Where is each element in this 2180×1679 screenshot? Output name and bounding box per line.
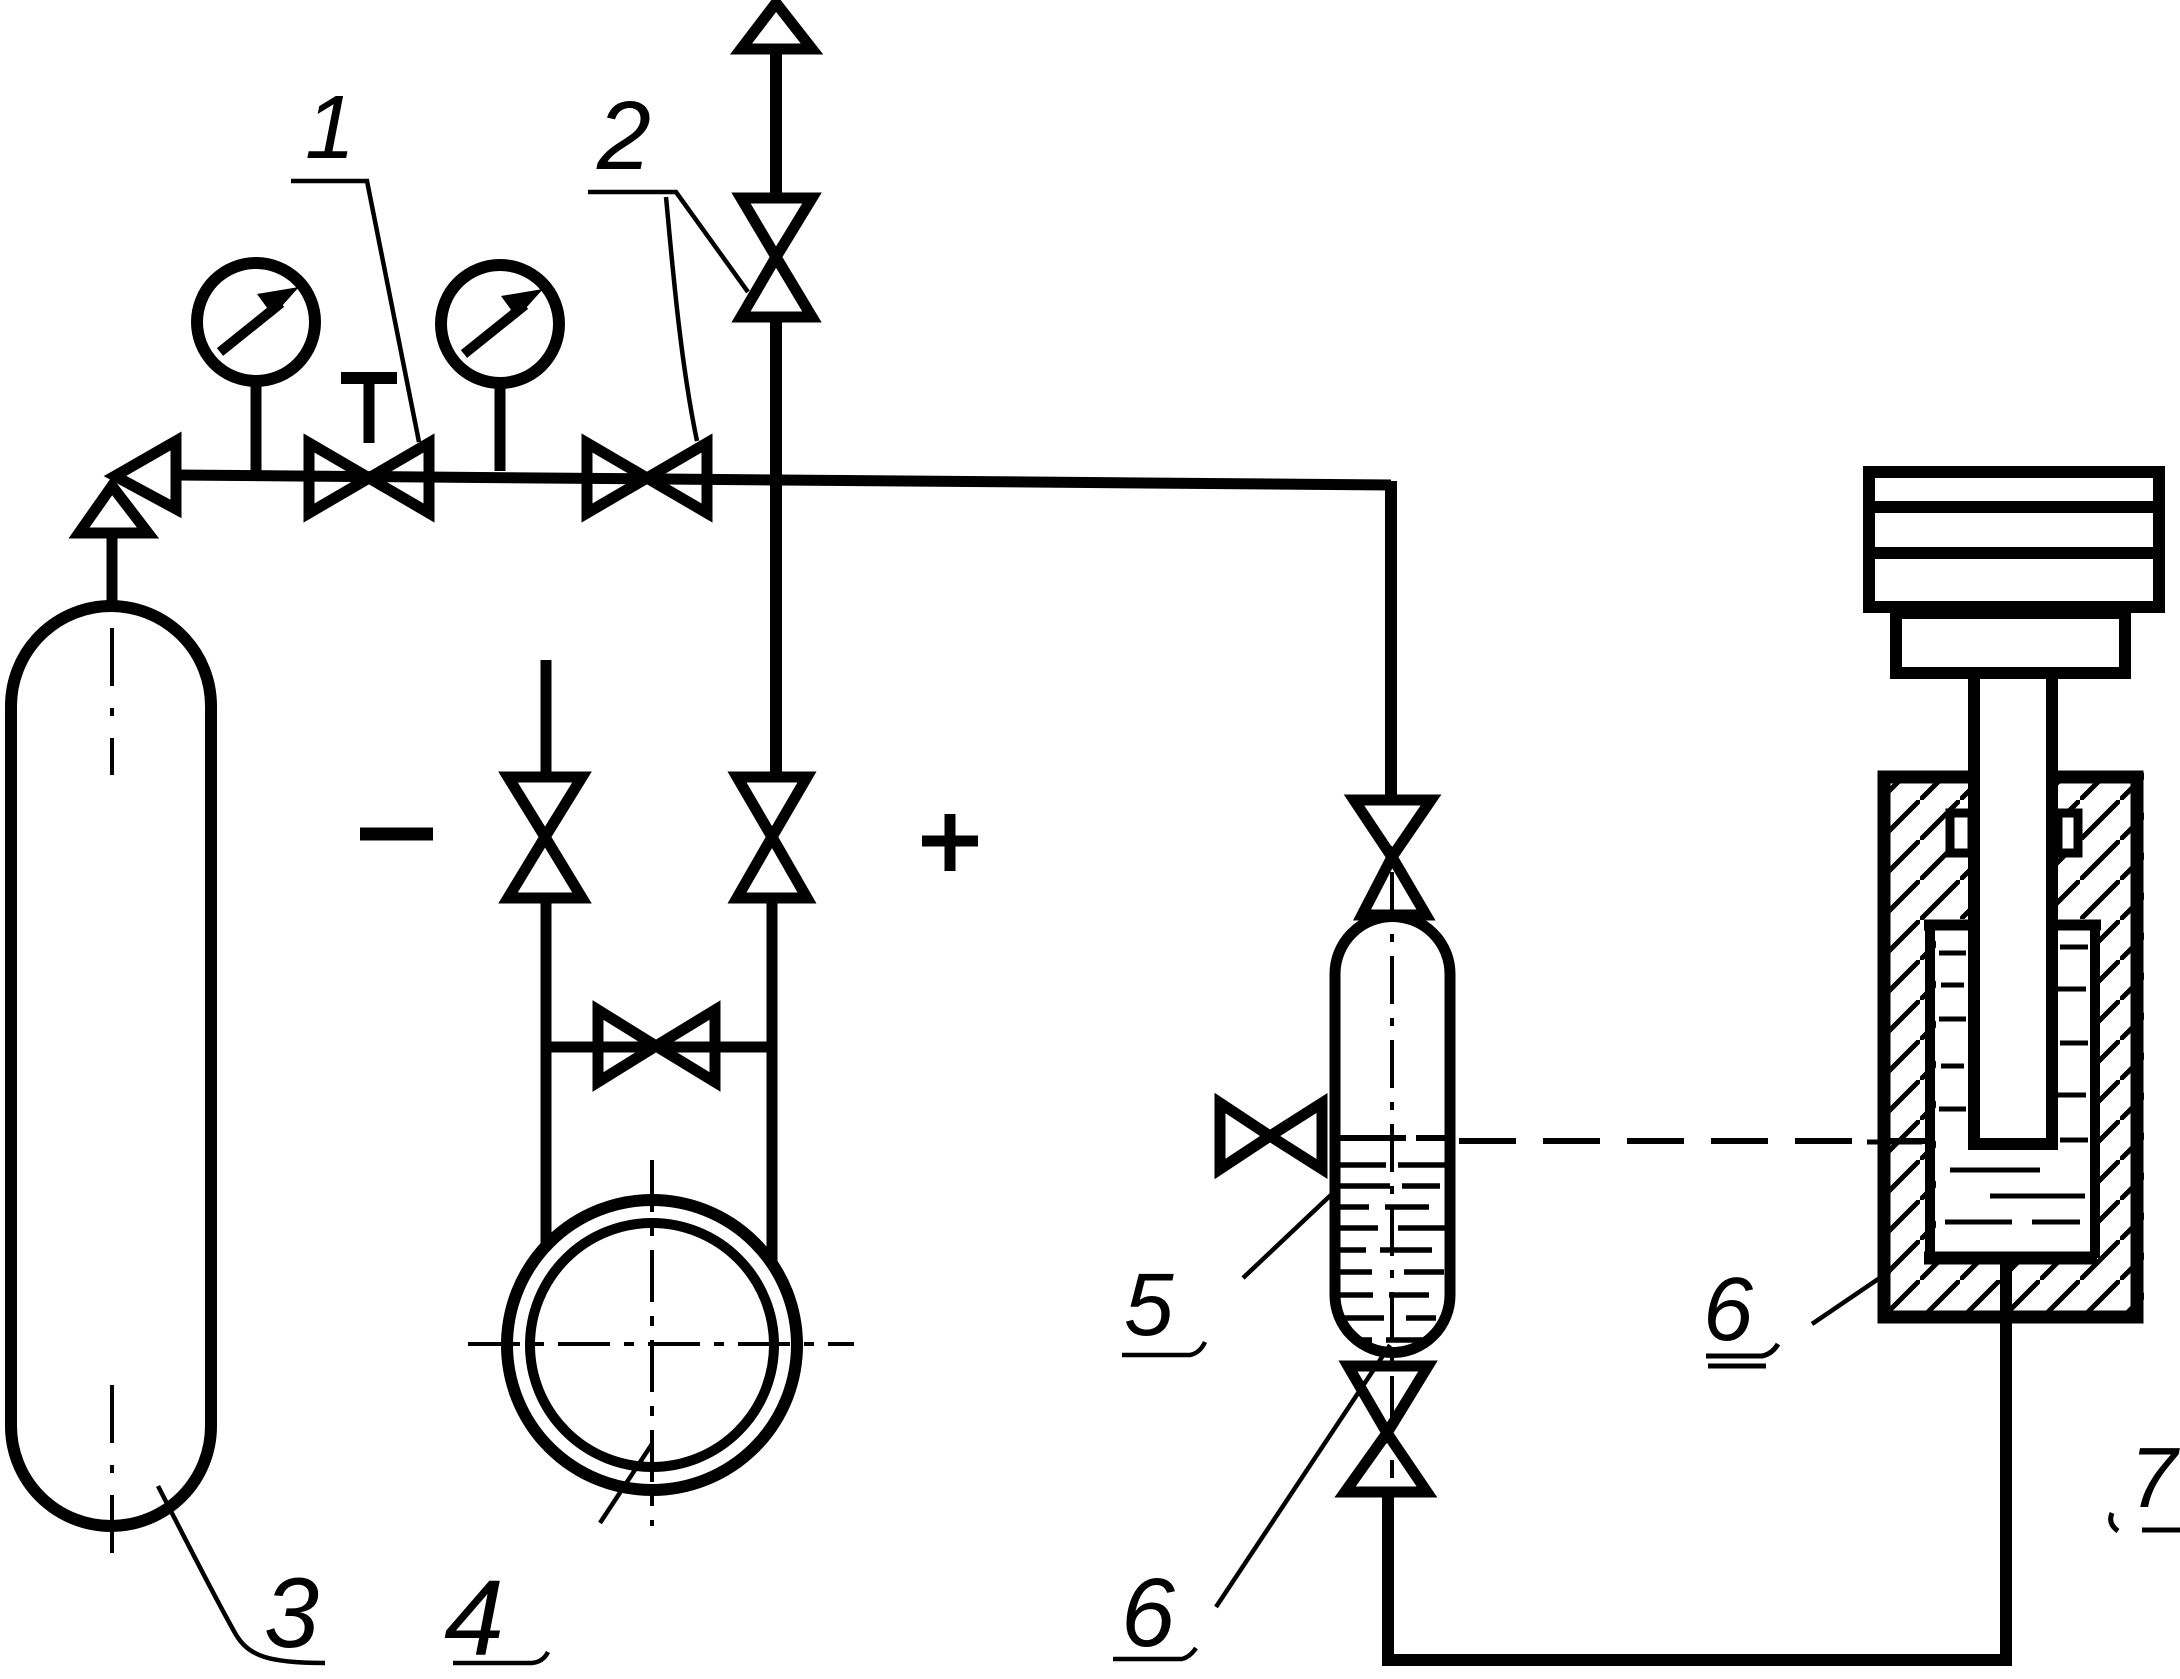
press cylinder body (hatched): [1878, 771, 2144, 1323]
separator centerline: [1390, 872, 1394, 1478]
label 4 underline: [453, 1652, 548, 1663]
separator feed riser: [1385, 481, 1397, 800]
svg-text:2: 2: [596, 81, 651, 190]
cylinder centerline: [110, 628, 114, 1575]
minus branch pipe: [541, 895, 552, 1248]
leader 5: [1243, 1193, 1333, 1278]
plus branch valve: [737, 777, 807, 898]
separator side valve: [1220, 1103, 1322, 1169]
press gland notch right: [2058, 813, 2078, 853]
device 4 centerlines: [468, 1342, 854, 1346]
dashed level line to press: [1459, 1138, 1928, 1144]
vent pipe lower / plus riser: [770, 315, 782, 780]
minus branch stub: [541, 660, 552, 777]
leader 2 to valve 2: [666, 197, 697, 441]
press liquid dashes: [1867, 947, 2088, 1222]
leader 4: [600, 1444, 652, 1523]
svg-text:4: 4: [444, 1557, 504, 1678]
differential device 4 (circle): [507, 1200, 797, 1490]
label 5 underline: [1122, 1342, 1205, 1355]
minus branch valve: [508, 777, 582, 898]
bypass pipe: [546, 1042, 772, 1053]
plus sign: [922, 814, 978, 871]
minus sign: [360, 828, 433, 841]
leader 2 to vent valve: [588, 192, 748, 292]
main manifold pipe: [176, 475, 1391, 485]
leader 6 right to press: [1812, 1271, 1890, 1324]
label 6 right double underline: [1706, 1344, 1778, 1366]
gas cylinder 3: [11, 606, 211, 1526]
svg-text:5: 5: [1124, 1254, 1174, 1354]
liquid level line: [1336, 1135, 1450, 1141]
press weight stack: [1869, 472, 2159, 607]
cylinder angle valve: [79, 441, 176, 606]
pressure gauge (right): [441, 265, 559, 471]
svg-text:6: 6: [1703, 1260, 1754, 1360]
svg-text:6: 6: [1121, 1558, 1175, 1667]
pressure gauge (left): [197, 263, 315, 471]
press gland notch left: [1950, 813, 1972, 853]
vent arrow: [741, 3, 812, 49]
label 6 lower underline: [1113, 1648, 1196, 1659]
vent pipe upper: [770, 49, 782, 201]
press carrier block: [1896, 613, 2125, 673]
bottom return pipe: [1388, 1258, 2006, 1660]
liquid hatching in vessel: [1333, 1165, 1452, 1340]
separator vessel 5: [1335, 916, 1450, 1352]
plus branch pipe: [767, 895, 778, 1264]
bypass valve: [598, 1010, 715, 1082]
press piston rod: [1968, 679, 2058, 1144]
leader 3: [158, 1486, 325, 1663]
label 7 underline: [2111, 1513, 2180, 1531]
svg-text:7: 7: [2130, 1431, 2180, 1526]
svg-text:1: 1: [305, 78, 355, 178]
vent valve: [741, 198, 812, 317]
svg-text:3: 3: [264, 1557, 319, 1668]
leader 1: [291, 181, 419, 442]
press cup (measuring cylinder): [1924, 925, 2101, 1258]
separator bottom valve: [1345, 1366, 1428, 1492]
valve 1 with T-handle: [309, 378, 429, 513]
separator top valve: [1354, 800, 1431, 915]
valve 2: [587, 443, 707, 513]
leader 6 lower: [1216, 1345, 1390, 1607]
